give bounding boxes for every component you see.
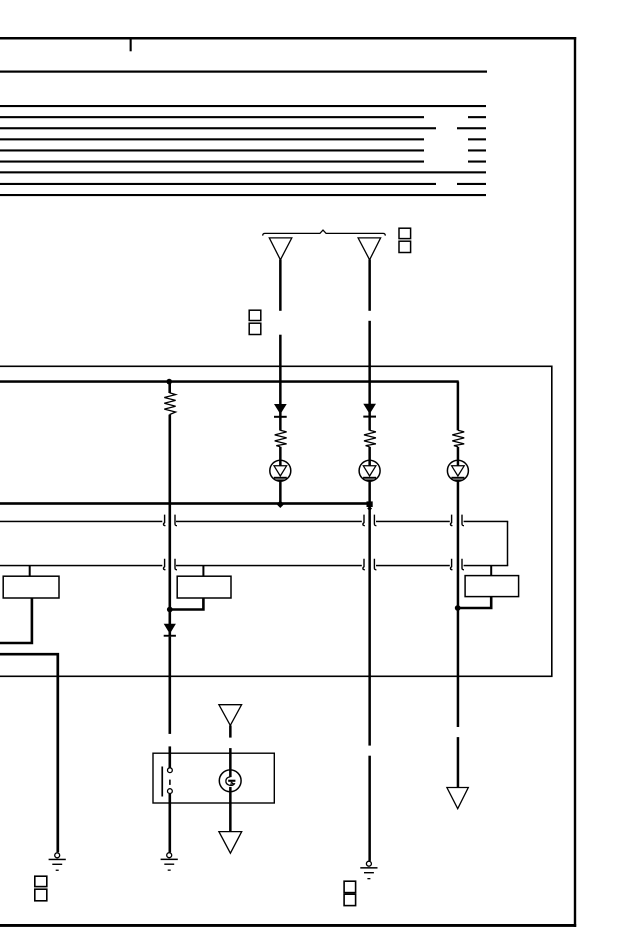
wire from arrow A1 down (upper) [279, 260, 282, 311]
header text line 8 [0, 183, 436, 185]
header text line 4 [0, 138, 424, 140]
label box pair at G3 [344, 881, 356, 892]
wire LED3 down long [457, 480, 460, 727]
bus wire 2 horizontal thick [0, 502, 370, 505]
header text line 1 [0, 105, 486, 107]
resistor R1 [164, 393, 175, 415]
brace over power arrows [263, 230, 386, 236]
bus corner wire down right branch [457, 382, 460, 431]
signal wire row 1 [0, 521, 508, 523]
wire A2 resume [368, 321, 371, 431]
ground G3 [360, 861, 377, 879]
wire right branch resume below gap [457, 737, 460, 787]
hop marks row1 at vertical 170 [163, 515, 177, 526]
bus wire top horizontal [0, 380, 459, 383]
header text line 6 [0, 161, 424, 163]
power arrow A5 right [447, 788, 468, 809]
junction diamond at bus [277, 500, 284, 508]
diode D3 [164, 624, 176, 634]
header text line 3 [0, 127, 436, 129]
wire LED1 to bus [279, 480, 282, 503]
wire R2 to LED1 [279, 447, 282, 466]
hop marks row1 at vertical 457 [450, 515, 464, 526]
meter box bottom edge [0, 676, 553, 678]
meter box right edge [551, 366, 553, 678]
connector box B1 [3, 576, 59, 598]
top border tick [130, 40, 132, 52]
wire R1 branch resume below gap [169, 746, 172, 767]
wire LED2 down long [368, 480, 371, 745]
relay contact dash [169, 780, 171, 785]
stub wire into connector box B3 [490, 566, 492, 576]
relay box [153, 753, 274, 803]
header text line 5 [0, 149, 424, 151]
wire below D3 [169, 637, 172, 734]
power arrow A1 [269, 238, 292, 260]
diode D2 [363, 404, 376, 414]
LED L3 [447, 460, 468, 481]
hop marks row2 at vertical 170 [163, 559, 177, 570]
label box pair left wire [249, 310, 261, 320]
ground G2 [161, 853, 178, 871]
hop marks row2 at vertical 369 [363, 559, 377, 570]
left horizontal wire exiting box [0, 654, 58, 852]
wire R4 to LED3 [457, 447, 460, 466]
label box pair at G1 [35, 876, 47, 886]
header rule line [0, 71, 487, 73]
wire from B2 bottom L-shape [171, 598, 204, 610]
power arrow A2 [358, 238, 381, 260]
wire R3 to LED2 [368, 447, 371, 466]
diode D1 [274, 404, 287, 414]
meter box top edge [0, 366, 553, 368]
hop marks row1 at vertical 369 [363, 515, 377, 526]
ground G1 [49, 853, 66, 871]
node on bus at resistor branch [166, 379, 172, 385]
label box pair right of arrows [399, 228, 411, 238]
header text line 9 [0, 194, 486, 196]
stub wire into connector box B2 [202, 566, 204, 577]
relay coil circle [219, 770, 241, 792]
connector box B2 [177, 576, 231, 598]
branch wire to resistor R1 [168, 382, 171, 394]
header text line 2 [0, 116, 424, 118]
wire below relay coil [229, 787, 232, 832]
resistor R4 [452, 430, 464, 447]
wire below A3 dashed [229, 725, 232, 737]
wire from B1 bottom L-shape [0, 598, 32, 643]
LED L2 [359, 460, 380, 481]
wire from arrow A2 down (upper) [368, 260, 371, 311]
page right border [574, 37, 576, 927]
LED L1 [270, 460, 291, 481]
header text line 7 [0, 171, 486, 173]
signal wire row 2 [0, 565, 508, 567]
resistor R2 [275, 430, 287, 447]
wire below R1 [169, 415, 172, 637]
power arrow A4 below relay [219, 832, 242, 854]
junction blob at bus end [367, 501, 373, 507]
wire A2 branch resume below gap [368, 756, 371, 861]
wire from B3 bottom L-shape [459, 597, 492, 608]
junction dot at right vertical [455, 605, 461, 611]
hop marks row2 at vertical 457 [450, 559, 464, 570]
resistor R3 [364, 430, 376, 447]
relay contact circle bottom [168, 789, 173, 794]
stub wire into connector box B1 [29, 566, 31, 577]
wire below relay contact [169, 794, 172, 853]
wire row1 corner down to row2 [507, 521, 509, 565]
page top border [0, 37, 576, 40]
wire A1 resume below label gap [279, 335, 282, 431]
power arrow A3 above relay [219, 705, 242, 726]
page bottom border [0, 924, 576, 927]
relay coil inner mark [226, 777, 235, 785]
junction dot at main wire [167, 607, 173, 613]
relay switch lever [161, 767, 163, 797]
relay contact circle top [168, 768, 173, 773]
connector box B3 [465, 576, 518, 597]
